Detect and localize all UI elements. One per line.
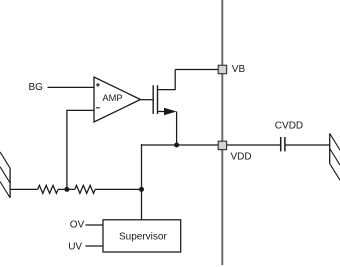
label CVDD <box>275 121 303 132</box>
wire op-amp output to gate <box>141 99 153 101</box>
wire capacitor to right ground <box>285 144 330 146</box>
junction feedback tap <box>64 187 69 192</box>
resistor R1 <box>38 185 58 193</box>
wire R1 to R2 <box>58 188 75 190</box>
supervisor block U2 <box>103 220 181 252</box>
label VDD <box>231 151 252 162</box>
label OV <box>70 220 85 231</box>
wire ground to R1 <box>10 188 38 190</box>
wire VDD pin to capacitor <box>227 144 280 146</box>
label UV <box>68 242 82 253</box>
svg-text:UV: UV <box>68 242 82 253</box>
svg-text:BG: BG <box>29 82 44 93</box>
label BG <box>29 82 44 93</box>
wire VDD horizontal (node to VDD pin) <box>141 144 218 146</box>
wire drain to VB pin <box>175 69 218 71</box>
resistor R2 <box>75 185 95 193</box>
wire UV input <box>86 245 104 247</box>
pin VDD <box>218 141 226 149</box>
svg-text:VB: VB <box>232 64 246 75</box>
wire source down to VDD net <box>176 112 178 146</box>
junction source/VDD <box>174 143 179 148</box>
svg-text:Supervisor: Supervisor <box>119 231 167 242</box>
wire OV input <box>86 224 104 226</box>
net VB rail (vertical supply rail) <box>221 0 223 265</box>
transistor Q1 <box>153 70 176 116</box>
svg-text:VDD: VDD <box>231 151 252 162</box>
ground left (chassis) <box>0 152 10 198</box>
label VB <box>232 64 246 75</box>
svg-text:OV: OV <box>70 220 85 231</box>
wire BG to op-amp + input <box>48 86 95 88</box>
op-amp U1 AMP <box>94 77 141 122</box>
capacitor CVDD <box>281 137 285 151</box>
svg-text:CVDD: CVDD <box>275 121 303 132</box>
svg-text:AMP: AMP <box>102 93 122 103</box>
wire R2 to node <box>95 188 141 190</box>
wire feedback to op-amp - input <box>67 110 94 189</box>
ground right (chassis) <box>330 133 340 180</box>
node divider/VDD vertical <box>141 144 143 220</box>
junction divider node <box>139 187 144 192</box>
pin VB <box>218 65 226 73</box>
